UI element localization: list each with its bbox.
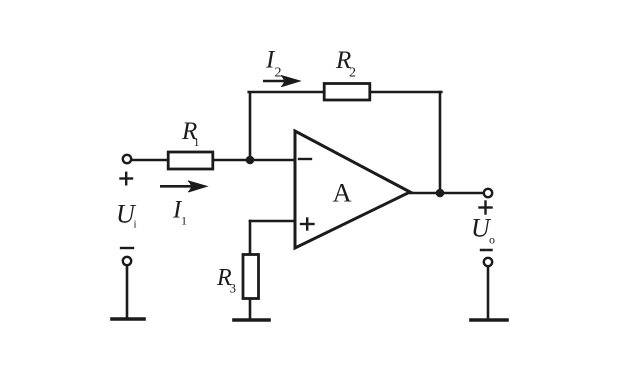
svg-text:o: o [489,233,495,247]
svg-text:3: 3 [230,281,237,296]
svg-text:1: 1 [181,214,187,228]
svg-text:i: i [134,219,137,231]
svg-text:A: A [333,178,352,208]
svg-text:2: 2 [349,66,356,81]
svg-text:2: 2 [275,66,282,81]
svg-text:1: 1 [194,135,200,149]
